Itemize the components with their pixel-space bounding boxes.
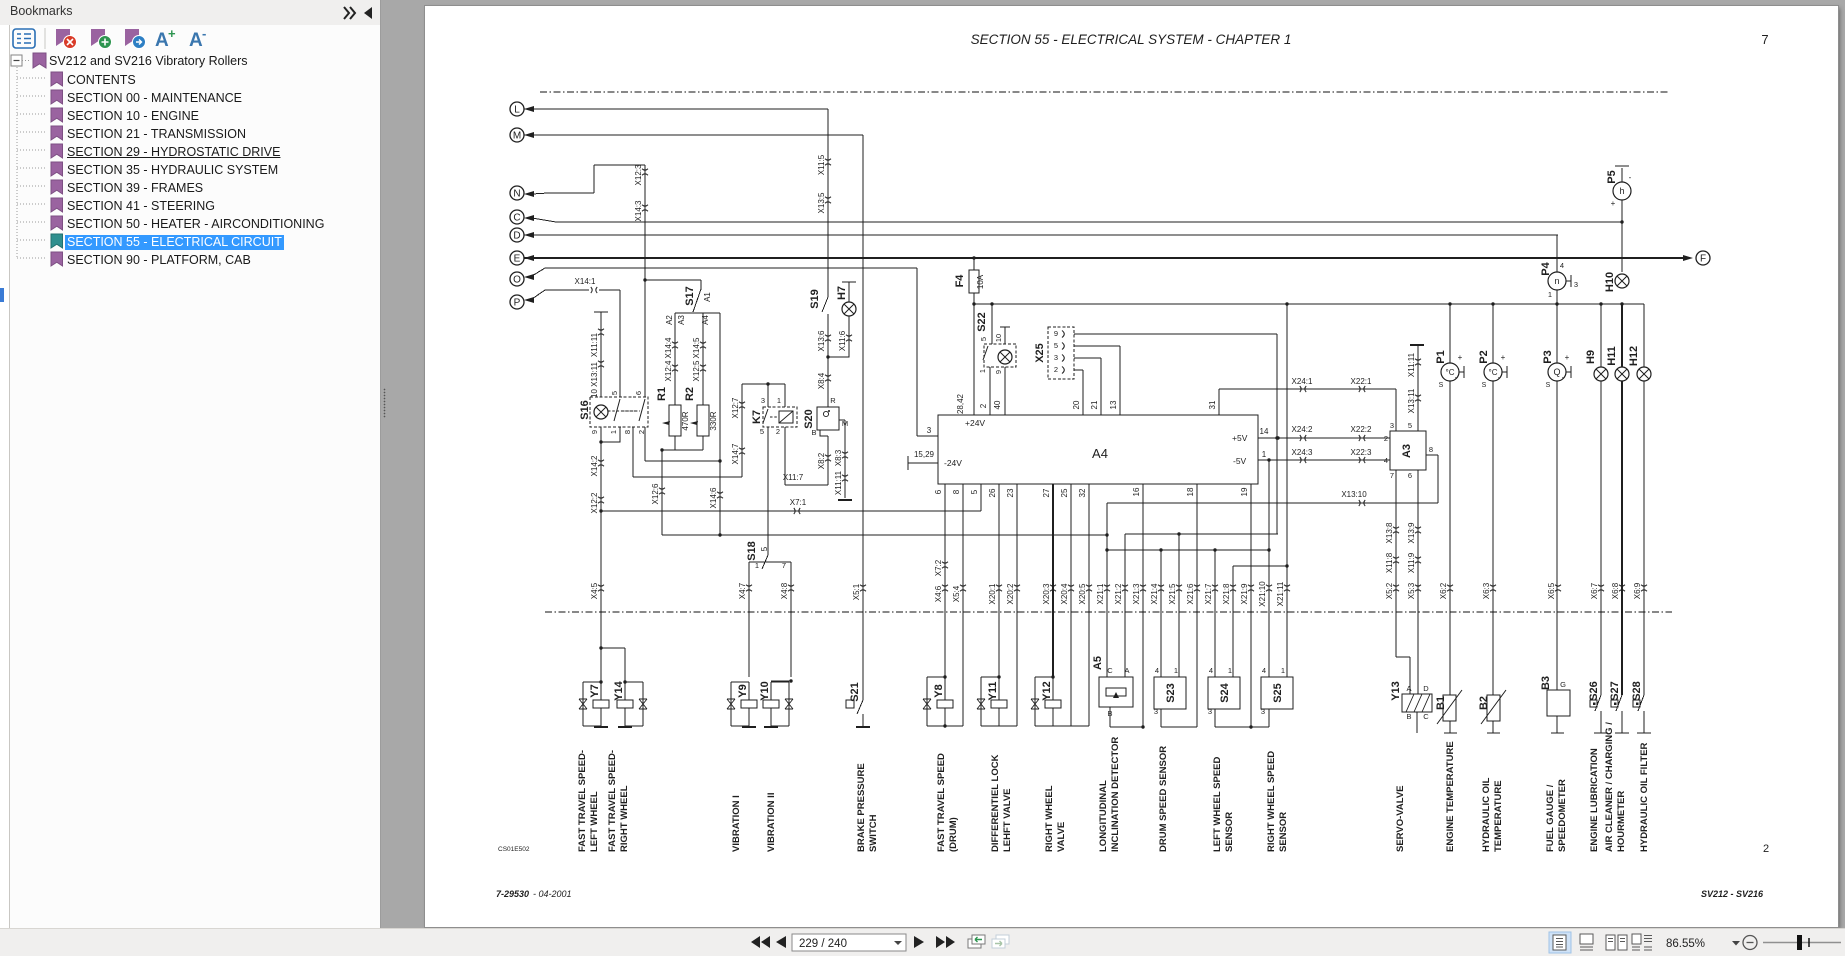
svg-text:D: D: [1423, 684, 1429, 693]
svg-text:X21:11: X21:11: [1276, 581, 1285, 606]
svg-text:9: 9: [590, 430, 599, 434]
svg-text:3: 3: [1261, 707, 1265, 716]
svg-text:X13:9: X13:9: [1407, 522, 1416, 543]
svg-text:S26: S26: [1588, 681, 1600, 701]
svg-text:VIBRATION I: VIBRATION I: [731, 795, 742, 852]
svg-text:INCLINATION DETECTOR: INCLINATION DETECTOR: [1110, 737, 1121, 852]
svg-text:X8:4: X8:4: [817, 372, 826, 389]
svg-text:X24:1: X24:1: [1292, 377, 1313, 386]
svg-text:7: 7: [782, 561, 786, 570]
svg-text:DIFFERENTIEL LOCK: DIFFERENTIEL LOCK: [990, 754, 1001, 852]
svg-text:7: 7: [1390, 471, 1394, 480]
svg-text:1: 1: [1262, 450, 1267, 459]
svg-text:X14:5: X14:5: [692, 337, 701, 358]
svg-text:R: R: [830, 396, 836, 405]
svg-text:4: 4: [1560, 261, 1564, 270]
svg-text:X20:3: X20:3: [1042, 583, 1051, 604]
svg-text:N: N: [513, 188, 520, 199]
svg-text:A3: A3: [677, 315, 686, 325]
svg-text:S: S: [1546, 382, 1551, 389]
svg-text:X12:4: X12:4: [664, 360, 673, 381]
svg-text:6: 6: [1408, 471, 1412, 480]
svg-text:9: 9: [1054, 329, 1058, 338]
svg-text:H10: H10: [1604, 272, 1616, 292]
svg-text:F4: F4: [954, 274, 966, 288]
svg-text:X21:4: X21:4: [1150, 583, 1159, 604]
svg-text:LONGITUDINAL: LONGITUDINAL: [1098, 780, 1109, 852]
svg-text:10: 10: [994, 334, 1003, 342]
svg-text:X21:5: X21:5: [1168, 583, 1177, 604]
svg-text:D: D: [513, 230, 520, 241]
svg-text:+: +: [1458, 353, 1463, 362]
svg-text:1: 1: [1228, 666, 1232, 675]
svg-text:VIBRATION II: VIBRATION II: [766, 793, 777, 852]
svg-text:X12:2: X12:2: [590, 492, 599, 513]
svg-text:H7: H7: [836, 286, 848, 300]
svg-text:X14:6: X14:6: [709, 487, 718, 508]
svg-text:3: 3: [927, 426, 932, 435]
svg-text:X20:1: X20:1: [988, 583, 997, 604]
svg-text:X4:5: X4:5: [590, 582, 599, 599]
svg-text:BRAKE PRESSURE: BRAKE PRESSURE: [856, 763, 867, 852]
svg-text:X13:6: X13:6: [817, 330, 826, 351]
svg-text:LEHFT VALVE: LEHFT VALVE: [1002, 788, 1013, 852]
svg-text:A: A: [1124, 666, 1129, 675]
svg-text:- 04-2001: - 04-2001: [533, 889, 572, 899]
svg-text:SECTION 55 - ELECTRICAL SYSTEM: SECTION 55 - ELECTRICAL SYSTEM - CHAPTER…: [971, 32, 1292, 47]
svg-text:AIR CLEANER / CHARGING /: AIR CLEANER / CHARGING /: [1604, 722, 1615, 852]
svg-text:S16: S16: [579, 400, 591, 420]
svg-text:2: 2: [979, 403, 988, 408]
svg-text:Y14: Y14: [613, 680, 625, 700]
svg-text:X5:4: X5:4: [952, 585, 961, 602]
svg-text:X13:11: X13:11: [1407, 388, 1416, 413]
svg-text:1: 1: [1548, 290, 1552, 299]
svg-text:5: 5: [610, 391, 619, 395]
svg-text:C: C: [1423, 712, 1429, 721]
svg-text:5: 5: [760, 546, 769, 551]
svg-text:SENSOR: SENSOR: [1278, 812, 1289, 852]
svg-text:330R: 330R: [709, 411, 718, 430]
svg-text:O: O: [513, 274, 521, 285]
svg-text:X11:5: X11:5: [817, 154, 826, 175]
svg-text:P: P: [514, 297, 521, 308]
svg-text:X21:9: X21:9: [1240, 583, 1249, 604]
svg-text:13: 13: [1109, 400, 1118, 409]
svg-text:n: n: [1554, 276, 1559, 286]
svg-text:X5:3: X5:3: [1407, 582, 1416, 599]
svg-text:TEMPERATURE: TEMPERATURE: [1493, 780, 1504, 852]
svg-text:SWITCH: SWITCH: [868, 814, 879, 852]
svg-text:-5V: -5V: [1233, 456, 1247, 466]
svg-text:X21:8: X21:8: [1222, 583, 1231, 604]
svg-text:X21:3: X21:3: [1132, 583, 1141, 604]
svg-text:B1: B1: [1435, 696, 1447, 710]
svg-text:X7:2: X7:2: [934, 559, 943, 576]
svg-text:FAST TRAVEL SPEED: FAST TRAVEL SPEED: [936, 753, 947, 852]
svg-text:X20:4: X20:4: [1060, 583, 1069, 604]
svg-text:LEFT WHEEL SPEED: LEFT WHEEL SPEED: [1212, 756, 1223, 852]
svg-text:25: 25: [1060, 488, 1069, 497]
svg-text:X11:7: X11:7: [783, 473, 804, 482]
svg-text:FUEL GAUGE /: FUEL GAUGE /: [1545, 784, 1556, 852]
svg-text:H11: H11: [1606, 346, 1618, 366]
svg-text:3: 3: [1054, 353, 1058, 362]
svg-text:(DRUM): (DRUM): [948, 817, 959, 852]
svg-text:X24:2: X24:2: [1292, 425, 1313, 434]
svg-text:X14:1: X14:1: [575, 277, 596, 286]
svg-text:X11:6: X11:6: [838, 330, 847, 351]
svg-text:4: 4: [1209, 666, 1213, 675]
svg-text:Y11: Y11: [987, 682, 999, 701]
svg-text:X6:7: X6:7: [1590, 582, 1599, 599]
svg-text:X11:11: X11:11: [834, 470, 843, 495]
svg-text:X5:1: X5:1: [852, 583, 861, 600]
svg-text:X14:7: X14:7: [731, 443, 740, 464]
svg-text:14: 14: [1260, 427, 1269, 436]
svg-text:X11:11: X11:11: [590, 332, 599, 357]
svg-text:M: M: [513, 130, 521, 141]
svg-text:7-29530: 7-29530: [496, 889, 529, 899]
svg-text:X4:8: X4:8: [780, 582, 789, 599]
svg-text:ENGINE LUBRICATION: ENGINE LUBRICATION: [1589, 748, 1600, 852]
svg-text:VALVE: VALVE: [1056, 822, 1067, 852]
svg-text:8: 8: [952, 489, 961, 494]
svg-text:M: M: [842, 419, 848, 428]
svg-text:R1: R1: [656, 387, 668, 401]
svg-text:+5V: +5V: [1232, 433, 1248, 443]
svg-text:P3: P3: [1542, 350, 1554, 363]
svg-text:31: 31: [1208, 400, 1217, 409]
svg-text:S21: S21: [849, 682, 861, 702]
svg-text:A1: A1: [703, 292, 712, 302]
svg-text:X25: X25: [1034, 343, 1046, 363]
svg-text:4: 4: [1262, 666, 1266, 675]
svg-text:-24V: -24V: [944, 458, 962, 468]
svg-text:2: 2: [1763, 843, 1769, 855]
svg-text:X22:3: X22:3: [1351, 448, 1372, 457]
svg-text:20: 20: [1072, 400, 1081, 409]
svg-text:2: 2: [1384, 434, 1388, 443]
svg-text:5: 5: [1054, 341, 1058, 350]
svg-text:7: 7: [1761, 32, 1768, 47]
svg-text:-: -: [1562, 373, 1565, 382]
svg-text:4: 4: [1155, 666, 1159, 675]
svg-text:S28: S28: [1631, 681, 1643, 701]
svg-text:Q: Q: [1553, 367, 1560, 377]
svg-text:8: 8: [623, 430, 632, 434]
svg-text:X11:11: X11:11: [1407, 352, 1416, 377]
svg-text:Y9: Y9: [737, 684, 749, 697]
svg-text:H9: H9: [1585, 350, 1597, 364]
svg-text:S18: S18: [746, 541, 758, 561]
svg-text:X6:5: X6:5: [1547, 582, 1556, 599]
svg-text:5: 5: [760, 427, 764, 436]
svg-text:B3: B3: [1540, 676, 1552, 690]
svg-text:1: 1: [1281, 666, 1285, 675]
svg-text:4: 4: [1384, 456, 1388, 465]
svg-text:X12:7: X12:7: [731, 397, 740, 418]
svg-text:X13:8: X13:8: [1385, 522, 1394, 543]
svg-text:X6:3: X6:3: [1482, 582, 1491, 599]
svg-text:E: E: [514, 253, 521, 264]
svg-text:RIGHT WHEEL SPEED: RIGHT WHEEL SPEED: [1266, 751, 1277, 852]
svg-text:LEFT WHEEL: LEFT WHEEL: [589, 791, 600, 852]
svg-text:A: A: [1406, 684, 1411, 693]
svg-text:X20:2: X20:2: [1006, 583, 1015, 604]
svg-text:S: S: [1482, 382, 1487, 389]
svg-text:23: 23: [1006, 488, 1015, 497]
svg-text:2: 2: [776, 427, 780, 436]
svg-text:S27: S27: [1609, 681, 1621, 701]
svg-text:10 X13:11: 10 X13:11: [590, 362, 599, 398]
svg-text:1: 1: [978, 369, 987, 373]
svg-text:3: 3: [1154, 707, 1158, 716]
svg-text:6: 6: [934, 489, 943, 494]
svg-text:X8:3: X8:3: [834, 449, 843, 466]
svg-text:18: 18: [1186, 487, 1195, 496]
svg-text:2: 2: [637, 430, 646, 434]
svg-text:6: 6: [634, 391, 643, 395]
svg-text:S23: S23: [1165, 683, 1177, 703]
svg-text:P5: P5: [1606, 170, 1618, 183]
svg-text:S22: S22: [976, 312, 988, 332]
svg-text:19: 19: [1240, 487, 1249, 496]
svg-text:A5: A5: [1092, 656, 1104, 670]
svg-text:1: 1: [609, 430, 618, 434]
svg-text:A4: A4: [1092, 446, 1108, 461]
svg-text:86.55%: 86.55%: [1666, 938, 1705, 950]
svg-text:32: 32: [1078, 488, 1087, 497]
svg-text:P4: P4: [1540, 261, 1552, 275]
svg-text:-: -: [1629, 173, 1632, 182]
svg-text:2: 2: [1054, 365, 1058, 374]
svg-text:X11:9: X11:9: [1407, 552, 1416, 573]
svg-text:ENGINE TEMPERATURE: ENGINE TEMPERATURE: [1445, 741, 1456, 852]
svg-text:X6:8: X6:8: [1611, 582, 1620, 599]
svg-text:5: 5: [1408, 421, 1412, 430]
svg-text:DRUM SPEED SENSOR: DRUM SPEED SENSOR: [1158, 746, 1169, 852]
svg-text:X21:7: X21:7: [1204, 583, 1213, 604]
svg-text:X11:8: X11:8: [1385, 552, 1394, 573]
svg-text:+24V: +24V: [965, 418, 985, 428]
svg-text:X5:2: X5:2: [1385, 582, 1394, 599]
svg-text:+: +: [1565, 353, 1570, 362]
svg-text:3: 3: [1208, 707, 1212, 716]
svg-text:27: 27: [1042, 488, 1051, 497]
svg-text:Y7: Y7: [589, 684, 601, 697]
svg-text:3: 3: [1390, 421, 1394, 430]
svg-text:Y13: Y13: [1390, 681, 1402, 701]
svg-text:R2: R2: [684, 387, 696, 401]
svg-text:X20:5: X20:5: [1078, 583, 1087, 604]
svg-text:X4:7: X4:7: [738, 582, 747, 599]
svg-text:X13:5: X13:5: [817, 192, 826, 213]
svg-text:X12:5: X12:5: [692, 360, 701, 381]
svg-text:B: B: [1107, 709, 1112, 718]
svg-text:F: F: [1700, 253, 1706, 264]
svg-text:h: h: [1619, 186, 1624, 196]
svg-text:C: C: [513, 212, 520, 223]
svg-text:3: 3: [761, 396, 765, 405]
svg-text:X21:2: X21:2: [1114, 583, 1123, 604]
svg-text:5: 5: [979, 337, 988, 341]
svg-text:X13:10: X13:10: [1341, 490, 1367, 499]
svg-text:K7: K7: [751, 410, 763, 424]
svg-text:X6:2: X6:2: [1439, 582, 1448, 599]
svg-text:X12:6: X12:6: [651, 483, 660, 504]
svg-text:SPEEDOMETER: SPEEDOMETER: [1557, 779, 1568, 852]
svg-text:Y8: Y8: [933, 684, 945, 697]
svg-text:P1: P1: [1435, 350, 1447, 363]
svg-text:15,29: 15,29: [914, 450, 935, 459]
svg-text:S17: S17: [684, 286, 696, 306]
svg-text:X6:9: X6:9: [1633, 582, 1642, 599]
svg-text:X14:3: X14:3: [634, 200, 643, 221]
svg-text:1: 1: [1174, 666, 1178, 675]
svg-text:470R: 470R: [681, 411, 690, 430]
svg-text:A2: A2: [665, 315, 674, 325]
svg-text:S20: S20: [803, 409, 815, 429]
svg-text:CS01E502: CS01E502: [498, 846, 530, 853]
svg-text:5: 5: [970, 489, 979, 494]
svg-text:1: 1: [755, 561, 759, 570]
svg-text:-: -: [1455, 373, 1458, 382]
svg-text:X7:1: X7:1: [790, 498, 807, 507]
svg-text:-: -: [1498, 373, 1501, 382]
svg-text:C: C: [1107, 666, 1113, 675]
svg-text:S25: S25: [1272, 683, 1284, 703]
svg-text:8: 8: [1429, 445, 1433, 454]
svg-text:HYDRAULIC OIL: HYDRAULIC OIL: [1481, 777, 1492, 852]
svg-text:X14:2: X14:2: [590, 455, 599, 476]
svg-text:+: +: [1501, 353, 1506, 362]
svg-text:16: 16: [1132, 487, 1141, 496]
svg-text:X4:6: X4:6: [934, 585, 943, 602]
svg-text:FAST TRAVEL SPEED-: FAST TRAVEL SPEED-: [577, 750, 588, 852]
svg-text:L: L: [514, 104, 520, 115]
svg-text:X22:1: X22:1: [1351, 377, 1372, 386]
svg-text:°C: °C: [1489, 368, 1498, 377]
svg-text:X21:10: X21:10: [1258, 581, 1267, 607]
svg-text:229 / 240: 229 / 240: [799, 938, 847, 950]
svg-text:X21:1: X21:1: [1096, 583, 1105, 604]
svg-text:X24:3: X24:3: [1292, 448, 1313, 457]
svg-text:°C: °C: [1446, 368, 1455, 377]
svg-text:SV212 - SV216: SV212 - SV216: [1701, 889, 1764, 899]
svg-text:X21:6: X21:6: [1186, 583, 1195, 604]
svg-text:SERVO-VALVE: SERVO-VALVE: [1395, 785, 1406, 852]
svg-text:21: 21: [1090, 400, 1099, 409]
svg-text:Y10: Y10: [759, 681, 771, 701]
svg-text:P2: P2: [1478, 350, 1490, 363]
svg-text:X22:2: X22:2: [1351, 425, 1372, 434]
svg-text:10A: 10A: [976, 274, 985, 289]
svg-text:B2: B2: [1478, 696, 1490, 710]
svg-text:A3: A3: [1401, 444, 1413, 458]
svg-text:HOURMETER: HOURMETER: [1616, 791, 1627, 852]
svg-text:A4: A4: [701, 315, 710, 325]
svg-text:X8:2: X8:2: [817, 452, 826, 469]
svg-text:40: 40: [993, 400, 1002, 409]
svg-text:HYDRAULIC OIL FILTER: HYDRAULIC OIL FILTER: [1639, 742, 1650, 852]
svg-text:H12: H12: [1628, 346, 1640, 366]
svg-text:3: 3: [1574, 280, 1578, 289]
svg-text:26: 26: [988, 488, 997, 497]
svg-text:S19: S19: [809, 289, 821, 309]
svg-text:X14:4: X14:4: [664, 337, 673, 358]
svg-text:S: S: [1439, 382, 1444, 389]
svg-text:28,42: 28,42: [956, 393, 965, 414]
svg-text:+: +: [1611, 199, 1616, 208]
svg-text:FAST TRAVEL SPEED-: FAST TRAVEL SPEED-: [607, 750, 618, 852]
svg-text:Y12: Y12: [1041, 681, 1053, 701]
svg-text:S24: S24: [1219, 682, 1231, 702]
svg-text:1: 1: [777, 396, 781, 405]
svg-text:9: 9: [994, 370, 1003, 374]
svg-text:RIGHT WHEEL: RIGHT WHEEL: [1044, 785, 1055, 852]
svg-text:X12:3: X12:3: [634, 164, 643, 185]
svg-text:RIGHT WHEEL: RIGHT WHEEL: [619, 785, 630, 852]
svg-text:SENSOR: SENSOR: [1224, 812, 1235, 852]
svg-text:G: G: [1560, 680, 1566, 689]
svg-text:B: B: [1406, 712, 1411, 721]
